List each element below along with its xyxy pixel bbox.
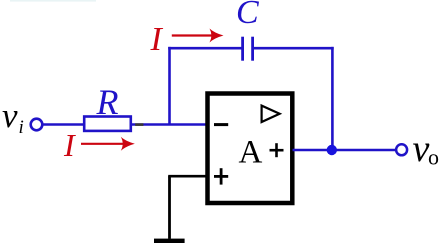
- wire feedback top left to capacitor: [168, 47, 242, 50]
- svg-text:I: I: [63, 127, 76, 163]
- wire dark joint segment after resistor: [135, 123, 143, 126]
- svg-text:R: R: [96, 82, 119, 122]
- input terminal circle: [31, 119, 43, 131]
- wire resistor to op-amp inverting input: [131, 123, 207, 126]
- wire input terminal to resistor: [43, 123, 84, 126]
- current arrow (input): [81, 137, 135, 151]
- wire non-inverting input horizontal: [168, 175, 206, 178]
- wire non-inverting input vertical to ground: [168, 176, 171, 239]
- op-amp non-inverting input plus sign: [214, 168, 228, 184]
- svg-text:I: I: [150, 21, 164, 58]
- ground: [154, 239, 185, 243]
- output terminal circle: [396, 144, 407, 155]
- wire feedback vertical riser: [168, 47, 171, 125]
- wire feedback top right from capacitor: [254, 47, 334, 50]
- op-amp inverting input minus sign: [214, 123, 228, 126]
- op-amp output plus sign: [270, 143, 284, 157]
- svg-text:C: C: [236, 0, 259, 31]
- capacitor C plates: [243, 37, 253, 61]
- svg-text:i: i: [19, 117, 24, 138]
- resistor R: [84, 117, 131, 131]
- wire feedback right vertical drop to output node: [331, 47, 334, 150]
- op-amp U1 body: [208, 94, 293, 204]
- svg-text:A: A: [239, 135, 263, 171]
- svg-text:v: v: [413, 128, 430, 170]
- node output junction dot: [327, 145, 337, 155]
- op-amp gain direction triangle: [262, 106, 280, 122]
- current arrow (feedback): [172, 29, 224, 43]
- node vo terminal label: [413, 128, 440, 170]
- node vi terminal label: [2, 96, 24, 138]
- wire op-amp output: [293, 149, 397, 152]
- svg-text:o: o: [428, 145, 439, 170]
- svg-text:v: v: [2, 96, 18, 135]
